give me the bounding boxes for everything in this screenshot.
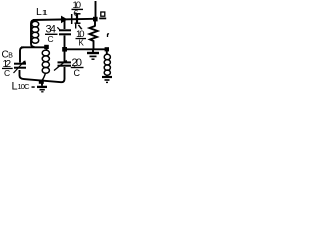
svg-text:C: C <box>48 34 54 44</box>
svg-text:C: C <box>74 68 81 78</box>
svg-text:€: € <box>74 9 79 18</box>
svg-text:K: K <box>79 38 85 47</box>
svg-text:10C: 10C <box>18 82 31 91</box>
svg-text:11: 11 <box>42 8 48 17</box>
svg-text:C: C <box>4 68 10 78</box>
